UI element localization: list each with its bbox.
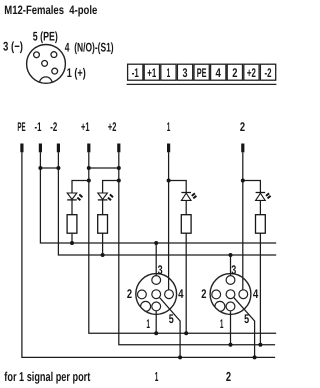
terminal pin 1 <box>167 144 170 153</box>
wire +1 vertical + bus +1 <box>89 152 276 333</box>
resistor R3 <box>181 215 191 234</box>
wire LED V1 to resistor R1 <box>71 200 73 215</box>
junction port 2 pin 5 on PE bus <box>253 355 257 359</box>
junction port 1 pin 5 on PE bus <box>178 355 182 359</box>
LED V2 <box>98 193 113 200</box>
wire stub +1 to LED V1 branch <box>72 181 89 194</box>
terminal pin -1 <box>39 144 42 153</box>
svg-text:5: 5 <box>169 312 174 326</box>
terminal pin PE <box>20 144 23 153</box>
svg-text:5: 5 <box>244 312 249 326</box>
terminal pin +1 <box>87 144 90 153</box>
junction LED V3 stub on signal 1 <box>167 179 171 183</box>
svg-text:4: 4 <box>178 287 183 301</box>
svg-text:for 1 signal per port: for 1 signal per port <box>4 369 91 384</box>
wire port 1 pin 1 to bus +1 <box>155 311 157 333</box>
junction port 1 pin 3 on bus -1 <box>154 241 158 245</box>
junction LED V2 stub on +2 <box>117 179 121 183</box>
svg-text:5 (PE): 5 (PE) <box>33 30 58 44</box>
svg-text:1 (+): 1 (+) <box>67 66 86 80</box>
svg-text:1: 1 <box>220 317 224 331</box>
svg-text:2: 2 <box>232 66 237 80</box>
wire resistor R1 to bus -1 <box>71 233 73 243</box>
svg-text:+1: +1 <box>81 120 90 134</box>
svg-text:3: 3 <box>183 66 188 80</box>
wire signal 2 vertical <box>242 152 244 290</box>
svg-text:PE: PE <box>17 120 25 134</box>
junction R2 on bus -2 <box>101 253 105 257</box>
svg-text:PE: PE <box>197 66 207 80</box>
terminal pin 2 <box>241 144 244 153</box>
wire bus -1 to port 1 pin 3 <box>155 243 157 276</box>
terminal strip base line <box>127 83 277 85</box>
junction +2 bridge right <box>117 166 121 170</box>
junction R4 on bus +2 <box>258 343 262 347</box>
svg-text:4 (N/O)-(S1): 4 (N/O)-(S1) <box>65 40 114 54</box>
LED V1 <box>67 193 82 200</box>
svg-text:3: 3 <box>231 263 236 277</box>
svg-text:1: 1 <box>167 66 171 80</box>
terminal strip cell labels <box>132 66 272 80</box>
wire LED V3 to resistor R3 <box>185 200 187 214</box>
junction -1 bridge left <box>38 166 42 170</box>
svg-text:3: 3 <box>158 263 163 277</box>
junction LED V1 stub on +1 <box>87 179 91 183</box>
wire port 1 pin 5 to PE bus <box>159 297 180 357</box>
terminal pin -2 <box>57 144 60 153</box>
wire PE vertical + PE bottom bus <box>22 152 275 357</box>
wire +2 vertical + bus +2 <box>119 152 275 344</box>
junction LED V4 stub on signal 2 <box>241 179 245 183</box>
junction port 1 pin 1 on bus +1 <box>154 331 158 335</box>
resistor R2 <box>98 215 108 234</box>
wire resistor R3 to bus +1 <box>185 233 187 333</box>
junction port 2 pin 3 on bus -2 <box>229 253 233 257</box>
junction port 2 pin 1 on bus +2 <box>229 343 233 347</box>
svg-text:-1: -1 <box>132 66 139 80</box>
wire port 2 pin 5 to PE bus <box>234 297 255 357</box>
wire LED V4 to resistor R4 <box>259 200 261 214</box>
junction -2 bridge right <box>56 166 60 170</box>
wire -2 vertical + bus -2 <box>58 152 276 255</box>
svg-text:4: 4 <box>253 287 258 301</box>
resistor R4 <box>256 215 266 234</box>
svg-text:-2: -2 <box>50 120 57 134</box>
svg-text:+2: +2 <box>108 120 117 134</box>
wire resistor R4 to bus +2 <box>259 233 261 345</box>
LED V4 <box>256 193 271 201</box>
svg-text:2: 2 <box>201 287 206 301</box>
junction R3 on bus +1 <box>184 331 188 335</box>
wire stub signal 1 to LED V3 branch <box>169 181 187 193</box>
svg-text:-1: -1 <box>35 120 42 134</box>
wire -1 vertical + bus -1 <box>40 152 276 243</box>
wire bus -2 to port 2 pin 3 <box>230 255 232 276</box>
wire bridge -1 to -2 <box>40 167 58 169</box>
svg-text:1: 1 <box>167 120 171 134</box>
junction R1 on bus -1 <box>70 241 74 245</box>
svg-text:-2: -2 <box>265 66 272 80</box>
resistor R1 <box>67 215 77 234</box>
svg-text:2: 2 <box>127 287 132 301</box>
svg-text:2: 2 <box>226 369 231 384</box>
wire signal 1 vertical <box>168 152 170 290</box>
svg-text:1: 1 <box>155 369 159 384</box>
svg-text:2: 2 <box>240 120 245 134</box>
junction +1 bridge left <box>87 166 91 170</box>
socket face view X0 (M12 female, top left) <box>27 45 66 90</box>
wire bridge +1 to +2 <box>89 167 119 169</box>
svg-text:+2: +2 <box>247 66 256 80</box>
wire stub +2 to LED V2 branch <box>103 181 119 194</box>
terminal pin +2 <box>117 144 120 153</box>
wire stub signal 2 to LED V4 branch <box>243 181 261 193</box>
wire port 2 pin 1 to bus +2 <box>230 311 232 345</box>
terminal strip <box>128 64 276 80</box>
wire resistor R2 to bus -2 <box>102 233 104 255</box>
svg-text:M12-Females 4-pole: M12-Females 4-pole <box>4 3 97 17</box>
wire LED V2 to resistor R2 <box>102 200 104 215</box>
svg-text:3 (−): 3 (−) <box>3 40 23 54</box>
port 1 M12 socket <box>136 274 177 315</box>
port 2 M12 socket <box>210 274 251 315</box>
svg-text:4: 4 <box>216 66 221 80</box>
LED V3 <box>181 193 196 201</box>
svg-text:1: 1 <box>146 317 150 331</box>
svg-text:+1: +1 <box>147 66 156 80</box>
